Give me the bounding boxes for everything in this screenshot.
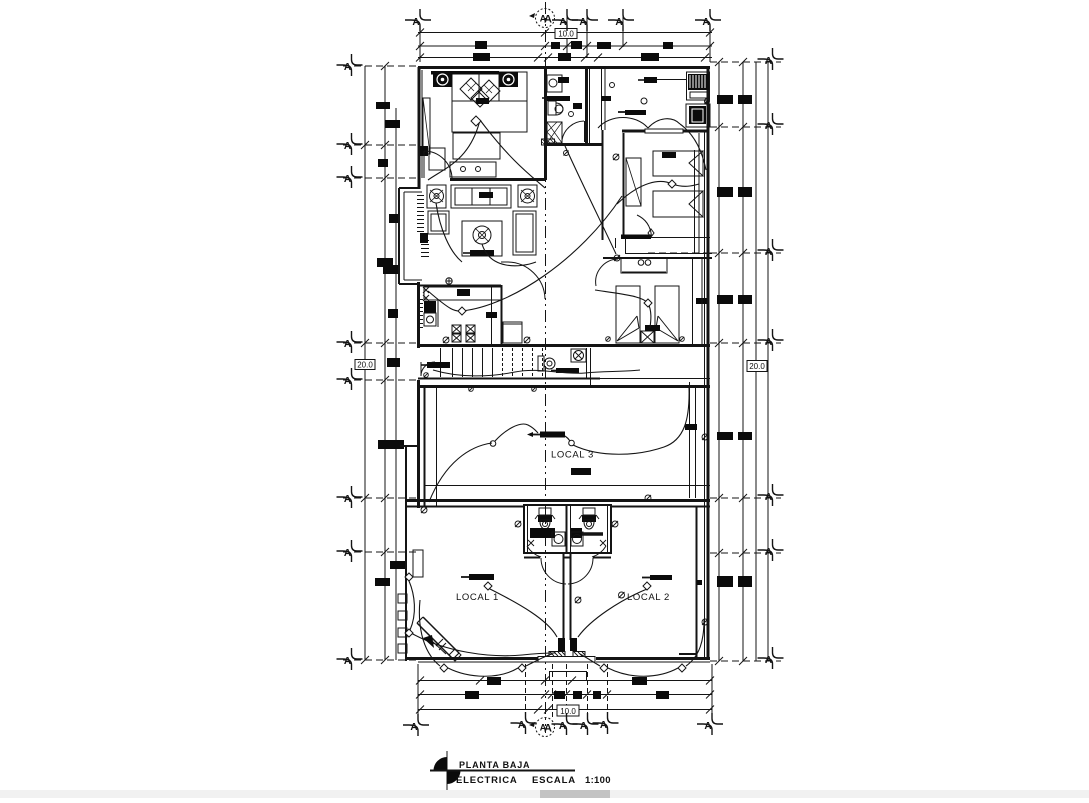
- svg-text:LOCAL 3: LOCAL 3: [551, 450, 594, 461]
- svg-text:A: A: [544, 723, 552, 735]
- svg-text:1:100: 1:100: [585, 775, 611, 786]
- svg-text:10.0: 10.0: [558, 30, 574, 39]
- svg-text:LOCAL 2: LOCAL 2: [627, 592, 670, 603]
- svg-text:LOCAL 1: LOCAL 1: [456, 592, 499, 603]
- svg-text:A: A: [544, 14, 552, 26]
- svg-text:PLANTA BAJA: PLANTA BAJA: [459, 760, 530, 770]
- svg-text:ESCALA: ESCALA: [532, 775, 576, 786]
- svg-text:20.0: 20.0: [357, 361, 373, 370]
- svg-text:10.0: 10.0: [560, 707, 576, 716]
- svg-text:ELECTRICA: ELECTRICA: [456, 775, 518, 786]
- svg-text:20.0: 20.0: [749, 362, 765, 371]
